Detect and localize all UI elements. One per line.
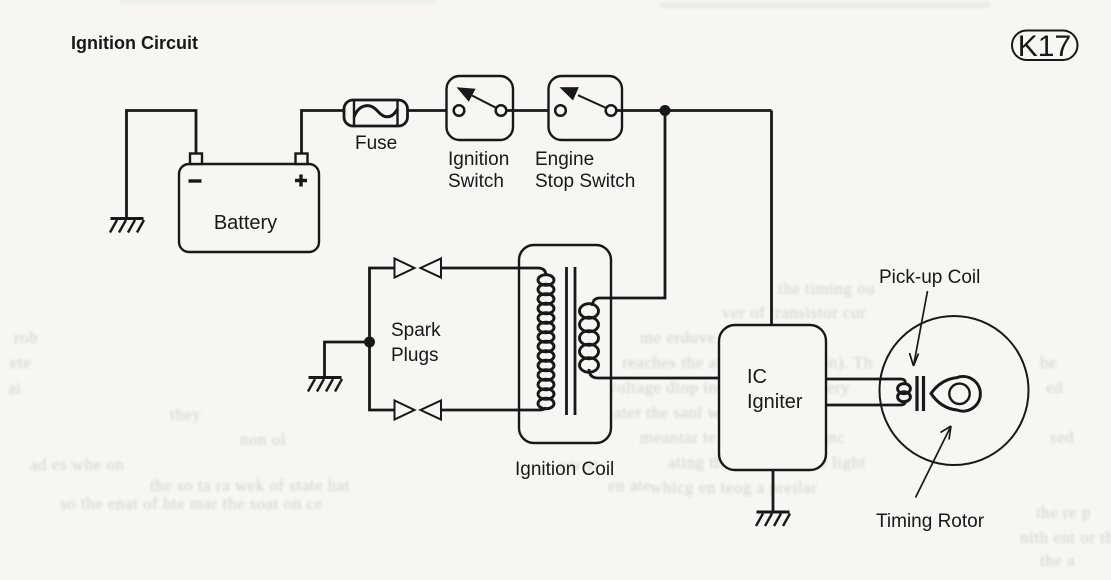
IC igniter label — [747, 366, 803, 413]
wire: fuse to ignition switch — [408, 109, 455, 112]
svg-text:whicg en teog a preilar: whicg en teog a preilar — [650, 478, 817, 497]
page badge K17 — [1012, 30, 1078, 63]
svg-text:IC: IC — [747, 366, 767, 388]
wire: coil primary bottom to IC igniter — [589, 369, 719, 378]
spark plugs label — [391, 320, 441, 366]
svg-text:Fuse: Fuse — [355, 133, 397, 154]
ignition coil T1 — [519, 245, 611, 443]
svg-text:the a: the a — [1040, 551, 1075, 570]
svg-text:ver of transistor cur: ver of transistor cur — [722, 303, 866, 322]
ignition switch S1 — [447, 76, 514, 140]
wire: IC igniter to pick-up coil (upper) — [826, 379, 905, 384]
svg-text:the so ta ra wek of state hat: the so ta ra wek of state hat — [150, 476, 350, 495]
wire: right corner down to IC igniter — [770, 111, 773, 326]
svg-text:ed: ed — [1046, 378, 1063, 397]
svg-text:the timing ou: the timing ou — [778, 279, 875, 298]
svg-text:nith ent or the d: nith ent or the d — [1020, 528, 1111, 547]
engine stop switch S2 — [549, 76, 623, 140]
battery B1 — [179, 154, 319, 253]
battery value label — [214, 212, 277, 234]
svg-text:Ignition: Ignition — [448, 149, 509, 170]
battery plus terminal label — [295, 175, 307, 187]
svg-text:Stop Switch: Stop Switch — [535, 171, 635, 192]
svg-text:they: they — [170, 405, 201, 424]
ground G3 (IC igniter) — [756, 512, 790, 526]
wire: spark plug bus to ground — [325, 342, 370, 377]
pick-up coil L1 — [898, 384, 911, 402]
wire: IC igniter to pick-up coil (lower) — [826, 400, 905, 405]
wire: coil secondary top lead — [441, 268, 547, 276]
svg-text:K17: K17 — [1018, 30, 1071, 63]
svg-text:Ignition Circuit: Ignition Circuit — [71, 33, 198, 53]
spark plug gap SP1 (top) — [395, 259, 442, 278]
pick-up coil core bars — [917, 376, 924, 411]
ignition coil secondary winding — [538, 275, 554, 409]
svg-text:sed: sed — [1050, 428, 1074, 447]
pick-up coil callout arrow — [910, 291, 928, 366]
svg-text:ad es whe on: ad es whe on — [30, 455, 124, 474]
ignition coil label — [515, 459, 614, 480]
svg-text:so the enat of hte mar the soa: so the enat of hte mar the soat on ce — [60, 494, 323, 513]
svg-text:Pick-up Coil: Pick-up Coil — [879, 267, 980, 288]
svg-text:Ignition Coil: Ignition Coil — [515, 459, 614, 480]
svg-text:Spark: Spark — [391, 320, 441, 341]
svg-text:Switch: Switch — [448, 171, 504, 192]
svg-text:the re p: the re p — [1036, 503, 1091, 522]
svg-text:Battery: Battery — [214, 212, 277, 234]
svg-text:ete: ete — [10, 353, 31, 372]
wire: ignition switch to engine stop switch — [506, 109, 556, 112]
timing rotor label — [876, 511, 985, 532]
svg-text:ai: ai — [8, 379, 21, 398]
svg-text:non ol: non ol — [240, 430, 286, 449]
ignition coil core — [567, 267, 576, 415]
timing rotor lobe — [931, 377, 980, 412]
svg-text:Engine: Engine — [535, 149, 594, 170]
fuse F1 — [344, 100, 408, 126]
svg-text:Igniter: Igniter — [747, 391, 803, 413]
svg-text:be: be — [1040, 353, 1057, 372]
title: Ignition Circuit — [71, 33, 198, 53]
ignition switch label — [448, 149, 509, 192]
IC igniter U1 — [719, 325, 826, 470]
wire: coil secondary bottom lead — [441, 407, 547, 410]
svg-text:Timing Rotor: Timing Rotor — [876, 511, 985, 532]
spark plug gap SP2 (bottom) — [395, 401, 442, 420]
junction node (main bus) — [660, 105, 671, 116]
ground G1 (battery) — [110, 219, 144, 233]
timing rotor callout arrow — [916, 426, 952, 498]
fuse label — [355, 133, 397, 154]
wire: engine stop switch to right corner — [616, 109, 772, 112]
wire: junction down to ignition coil primary — [593, 111, 666, 307]
pick-up coil label — [879, 267, 980, 288]
svg-text:Plugs: Plugs — [391, 345, 439, 366]
svg-text:en ate: en ate — [608, 476, 651, 495]
ignition coil primary winding — [580, 304, 599, 373]
junction node (spark plug bus) — [364, 337, 375, 348]
battery minus terminal label — [189, 179, 202, 182]
wire: IC igniter to ground — [772, 470, 775, 512]
wire: spark plugs left bus — [370, 268, 396, 410]
engine stop switch label — [535, 149, 635, 192]
svg-text:rob: rob — [14, 328, 38, 347]
timing rotor hub — [949, 384, 969, 404]
wire: battery positive to fuse — [302, 111, 345, 155]
wire: battery negative to ground — [127, 111, 197, 219]
ground G2 (spark plugs) — [308, 378, 342, 392]
timing rotor circle — [880, 316, 1029, 465]
